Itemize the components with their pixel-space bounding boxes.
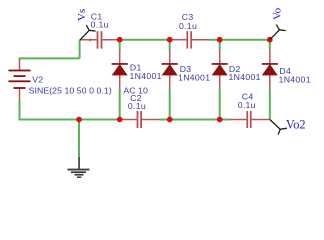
node dot top D2 bbox=[217, 37, 223, 43]
node dot bottom D1 bbox=[117, 117, 123, 123]
svg-text:1N4001: 1N4001 bbox=[279, 75, 311, 85]
wires (green nets) bbox=[19, 40, 270, 158]
wire bottom rail left segment bbox=[19, 119, 119, 121]
capacitor C2 stubs bbox=[120, 119, 137, 121]
node tick C1 anchor bbox=[89, 39, 91, 42]
wire D2 column upper/lower bbox=[219, 40, 221, 51]
white gaps between capacitor plates bbox=[97, 37, 251, 122]
svg-text:Vs: Vs bbox=[76, 9, 88, 21]
junction dots bbox=[76, 37, 273, 123]
wire battery bottom vertical bbox=[19, 100, 21, 121]
wire D3 column upper/lower bbox=[169, 40, 171, 51]
ground symbol bbox=[68, 157, 90, 178]
voltage pin Vo bbox=[270, 25, 286, 40]
diode D4 body triangle bbox=[263, 65, 277, 75]
diode D2 bbox=[212, 63, 228, 75]
voltage pin Vs bbox=[80, 25, 96, 40]
wire riser to C1 bbox=[79, 40, 81, 59]
diode D2 stubs bbox=[219, 50, 221, 63]
capacitor C1 plates bbox=[97, 31, 103, 48]
diode D4 stubs bbox=[269, 50, 271, 63]
diode D3 stubs bbox=[169, 50, 171, 63]
svg-text:0.1u: 0.1u bbox=[128, 101, 146, 111]
capacitor C3 plates bbox=[186, 31, 192, 48]
capacitor C4 stubs bbox=[230, 119, 246, 121]
diode D4 cathode bar bbox=[262, 63, 278, 65]
capacitor C4 plates bbox=[246, 111, 251, 128]
svg-text:1N4001: 1N4001 bbox=[229, 72, 261, 82]
diode D1 stubs bbox=[119, 50, 121, 63]
node dot top D1 bbox=[117, 37, 123, 43]
node dot top D3 bbox=[167, 37, 173, 43]
wire battery top corner stub bbox=[19, 58, 21, 61]
wire D1 column upper/lower bbox=[119, 40, 121, 51]
diode D1 bbox=[112, 63, 128, 75]
capacitor C3 stubs bbox=[172, 39, 187, 41]
svg-text:0.1u: 0.1u bbox=[91, 20, 109, 30]
diode D3 bbox=[162, 63, 178, 75]
capacitor C2 plates bbox=[137, 111, 142, 128]
svg-text:AC 10: AC 10 bbox=[123, 85, 148, 95]
node dot ground bbox=[76, 117, 82, 123]
diode D4 bbox=[262, 63, 278, 75]
wire top rail segment C3-Vo bbox=[209, 39, 269, 41]
wire battery top horizontal bbox=[20, 57, 80, 59]
diode D1 body triangle bbox=[113, 65, 127, 75]
svg-text:1N4001: 1N4001 bbox=[178, 73, 210, 83]
svg-text:SINE(25 10 50 0 0.1): SINE(25 10 50 0 0.1) bbox=[29, 85, 112, 95]
node dot Vo bbox=[267, 37, 273, 43]
voltage pin Vo2 bbox=[270, 120, 287, 135]
diode D3 cathode bar bbox=[162, 63, 178, 65]
wire top rail segment dot1-dot2 bbox=[120, 39, 170, 41]
svg-text:V2: V2 bbox=[32, 74, 43, 84]
node dot bottom D2 bbox=[217, 117, 223, 123]
capacitor C1 stubs bbox=[80, 39, 97, 41]
svg-text:Vo: Vo bbox=[272, 7, 284, 20]
svg-text:Vo2: Vo2 bbox=[286, 118, 306, 132]
node dot bottom D3 bbox=[167, 117, 173, 123]
svg-text:0.1u: 0.1u bbox=[179, 21, 197, 31]
diode D3 body triangle bbox=[163, 65, 177, 75]
wire D4 column upper/lower bbox=[269, 40, 271, 51]
red component terminal stubs bbox=[20, 39, 271, 120]
diode D2 cathode bar bbox=[212, 63, 228, 65]
diode D2 body triangle bbox=[213, 65, 227, 75]
battery V2 stubs bbox=[19, 60, 21, 70]
wire ground drop bbox=[78, 120, 80, 158]
battery V2 plates bbox=[9, 70, 31, 89]
diode D1 cathode bar bbox=[112, 63, 128, 65]
svg-text:1N4001: 1N4001 bbox=[130, 71, 162, 81]
wire bottom rail middle segment bbox=[159, 119, 230, 121]
svg-text:0.1u: 0.1u bbox=[238, 100, 256, 110]
